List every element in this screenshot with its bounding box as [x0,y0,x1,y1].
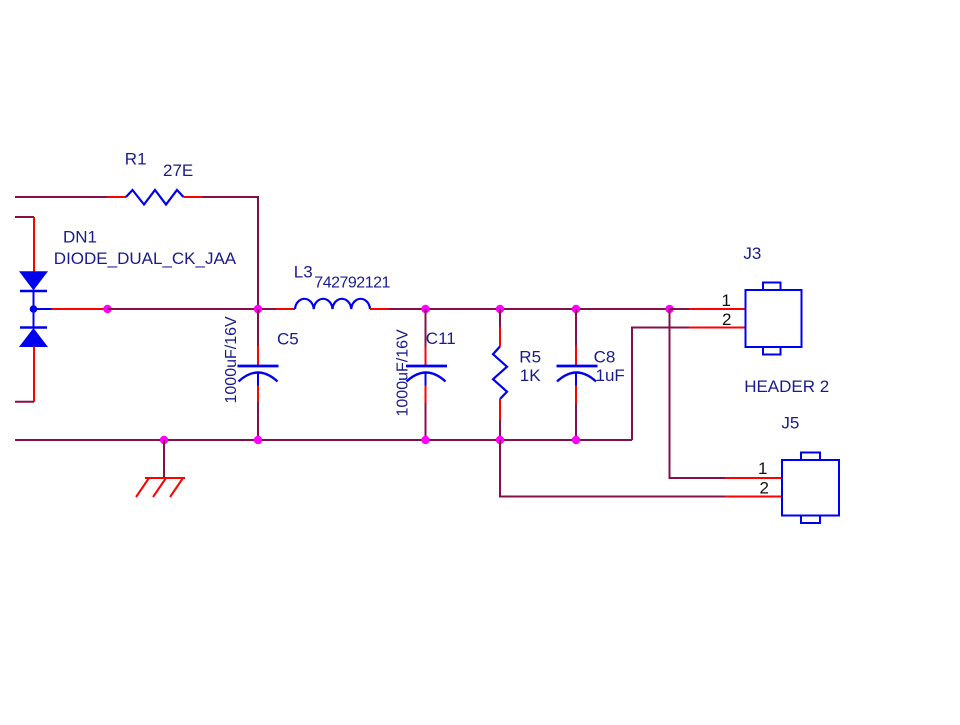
svg-text:L3: L3 [294,263,313,282]
inductor L3 pin right (red) [370,308,389,310]
node junction dot ground [160,436,168,444]
wire main net y309 L3 to C11 [389,308,426,310]
wire J5 pin1 net (from corner dot down) [670,309,726,478]
node junction dot at C5 top [254,305,262,313]
node junction dot C8 bottom [572,436,580,444]
capacitor C11 pin upper (red) [425,347,427,366]
resistor R5 [493,347,507,400]
capacitor C11 bottom plate arc [407,373,446,382]
wire DN1 junction stub (blue) [34,308,52,310]
capacitor C8 wire lower [575,404,577,440]
connector J5 [782,453,839,524]
wire main net y309 C11 to R5 [426,308,501,310]
svg-text:DIODE_DUAL_CK_JAA: DIODE_DUAL_CK_JAA [54,249,237,268]
capacitor C8 top plate [557,365,598,368]
svg-text:1000uF/16V: 1000uF/16V [395,329,412,417]
wire top-left horizontal net [15,196,107,198]
diode DN1 upper (anode top, cathode bottom) [20,272,47,290]
capacitor C5 pin lower (red) [257,386,259,403]
capacitor C8 pin upper (red) [575,346,577,366]
node junction dot at C11 top [421,305,429,313]
resistor R5 pin upper (red) [499,327,501,347]
diode DN1 lower (cathode top, anode bottom) [20,329,47,347]
resistor R1 [126,190,184,205]
ground [136,478,185,497]
node junction dot C5 bottom [254,436,262,444]
wire main net y309 R5 to C8 [500,308,576,310]
resistor R1 pin left (red) [107,196,126,198]
svg-text:742792121: 742792121 [314,275,390,292]
svg-text:2: 2 [722,310,731,329]
node junction dot R5 bottom [496,436,504,444]
capacitor C5 pin upper (red) [257,346,259,366]
svg-text:J5: J5 [781,414,799,433]
svg-text:DN1: DN1 [63,228,97,247]
capacitor C8 wire upper [575,309,577,346]
capacitor C5 stem (blue) [257,373,259,386]
capacitor C11 wire upper [425,309,427,347]
svg-text:1000uF/16V: 1000uF/16V [223,316,240,404]
wire main net y309 C5 to L3 [258,308,276,310]
wire DN1 top stub [15,216,34,218]
capacitor C11 pin lower (red) [425,386,427,404]
svg-text:HEADER 2: HEADER 2 [744,377,829,396]
pin DN1 top (red) [33,217,35,272]
capacitor C8 stem (blue) [575,373,577,386]
pin J3-2 (red) [689,327,746,329]
wire DN1 common cathode (blue) [33,291,35,328]
capacitor C8 pin lower (red) [575,386,577,405]
svg-text:1: 1 [722,291,731,310]
capacitor C8 bottom plate arc [557,373,596,382]
wire ground drop [163,440,165,478]
resistor R1 pin right (red) [184,196,203,198]
svg-text:C5: C5 [277,330,299,349]
svg-text:2: 2 [760,478,769,497]
resistor R5 pin lower (red) [499,399,501,420]
wire DN1 bottom stub [15,401,34,403]
pin DN1 bottom (red) [33,347,35,402]
node junction dot at J3/J5 corner [665,305,673,313]
node DN1 common cathode junction dot [30,305,38,313]
node junction dot diode output [103,305,111,313]
capacitor C11 stem (blue) [425,373,427,386]
capacitor C5 wire lower [257,402,259,440]
svg-text:R1: R1 [125,150,147,169]
capacitor C11 top plate [406,365,447,368]
capacitor C5 bottom plate arc [239,373,278,382]
wire main net y309 C8 to J3 corner [576,308,670,310]
node junction dot C11 bottom [421,436,429,444]
node junction dot at R5 top [496,305,504,313]
wire main net y309 from diode junction to C5 [108,308,259,310]
svg-text:R5: R5 [519,348,541,367]
svg-text:C11: C11 [426,329,456,348]
inductor L3 [295,299,370,309]
wire J5 pin2 net (from R5 bottom dot down) [500,440,725,497]
svg-text:1: 1 [758,459,767,478]
resistor R5 wire upper [499,309,501,327]
pin DN1 output (red) [52,308,108,310]
pin J5-2 (red) [725,496,782,498]
inductor L3 pin left (red) [276,308,295,310]
svg-text:C8: C8 [594,347,616,366]
diode DN1 lower cathode bar [20,326,47,329]
wire bottom corner up to J3 pin2 [632,328,689,441]
svg-text:J3: J3 [743,244,761,263]
capacitor C5 wire upper [257,309,259,346]
wire R1 right to corner [203,197,259,309]
pin J5-1 (red) [725,477,782,479]
capacitor C5 top plate [238,365,279,368]
capacitor C11 wire lower [425,403,427,440]
wire J3 pin1 from corner dot [670,308,690,310]
resistor R5 wire lower [499,420,501,440]
svg-text:1uF: 1uF [596,366,625,385]
svg-text:27E: 27E [163,161,193,180]
pin J3-1 (red) [689,308,746,310]
node junction dot at C8 top [572,305,580,313]
connector J3 [746,283,802,355]
svg-text:1K: 1K [520,366,541,385]
wire bottom net y440 [15,439,632,441]
diode DN1 upper cathode bar [20,290,47,293]
